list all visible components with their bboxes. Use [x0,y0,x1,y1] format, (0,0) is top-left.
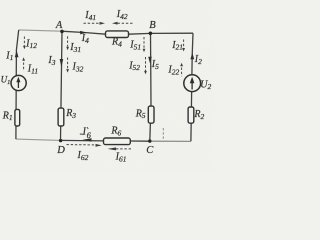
prime tick above I6 [87,127,88,129]
wire bottom C-corner (faint) [150,140,191,142]
dashed arrow I22 up [181,68,183,77]
dashed arrow I11 up [23,63,25,72]
arrow I5 down on branch B-C [148,57,152,64]
head I62 [96,144,102,147]
stray dashed mark near C [162,128,164,140]
arrow I4 right on top wire [80,31,86,35]
wire top A-B [61,31,193,34]
head I11 [22,57,25,61]
source U1 [11,75,26,90]
resistor R3 [58,108,64,126]
head I52 [144,71,147,75]
head I22 [180,63,183,67]
dashed arrow I61 left [116,148,131,150]
head I41 [100,22,106,25]
source U2 [184,75,201,92]
head I32 [66,69,69,73]
svg-text:B: B [149,20,156,31]
dashed arrow I51 down [143,37,145,49]
arrow I3 down on branch A-D [60,59,64,67]
resistor R1 [15,109,20,126]
resistor R4 [106,31,129,38]
head I61 [108,147,117,150]
node B [149,32,153,36]
wire branch A-D [61,31,63,140]
head I42 [112,22,118,25]
underline dash left of I6 [80,133,84,135]
resistor R6 [104,138,131,145]
wire left branch [16,30,19,139]
resistor R2 [188,107,194,123]
dashed arrow I32 down [67,58,69,70]
dashed arrow I52 down [145,57,147,71]
dashed arrow I12 down [23,37,25,46]
wire branch B-C [150,33,151,141]
svg-text:D: D [56,145,65,156]
svg-text:A: A [55,20,63,31]
wire bottom D-C [61,139,150,142]
node A [60,30,64,34]
node D [59,139,62,142]
node C [148,139,151,142]
arrow I2 up on right wire [190,53,194,60]
head I12 [23,46,26,50]
head I51 [143,49,146,53]
arrow I6 left on bottom wire [82,138,91,141]
head I31 [66,47,69,51]
head I21 [182,48,185,52]
dashed arrow I62 right [67,144,96,146]
dashed arrow I31 down [67,36,69,46]
wire bottom corner-D (faint) [16,139,61,140]
dashed arrow I21 down [183,40,185,49]
svg-text:C: C [146,145,154,156]
arrow I1 up on left wire [15,50,19,57]
dashed arrow I41 right [84,22,100,24]
resistor R5 [148,106,154,123]
wire right branch [191,33,193,141]
svg-text:6: 6 [87,130,92,140]
wire top corner-A (faint) [19,30,62,31]
dashed arrow I42 left [118,22,133,24]
